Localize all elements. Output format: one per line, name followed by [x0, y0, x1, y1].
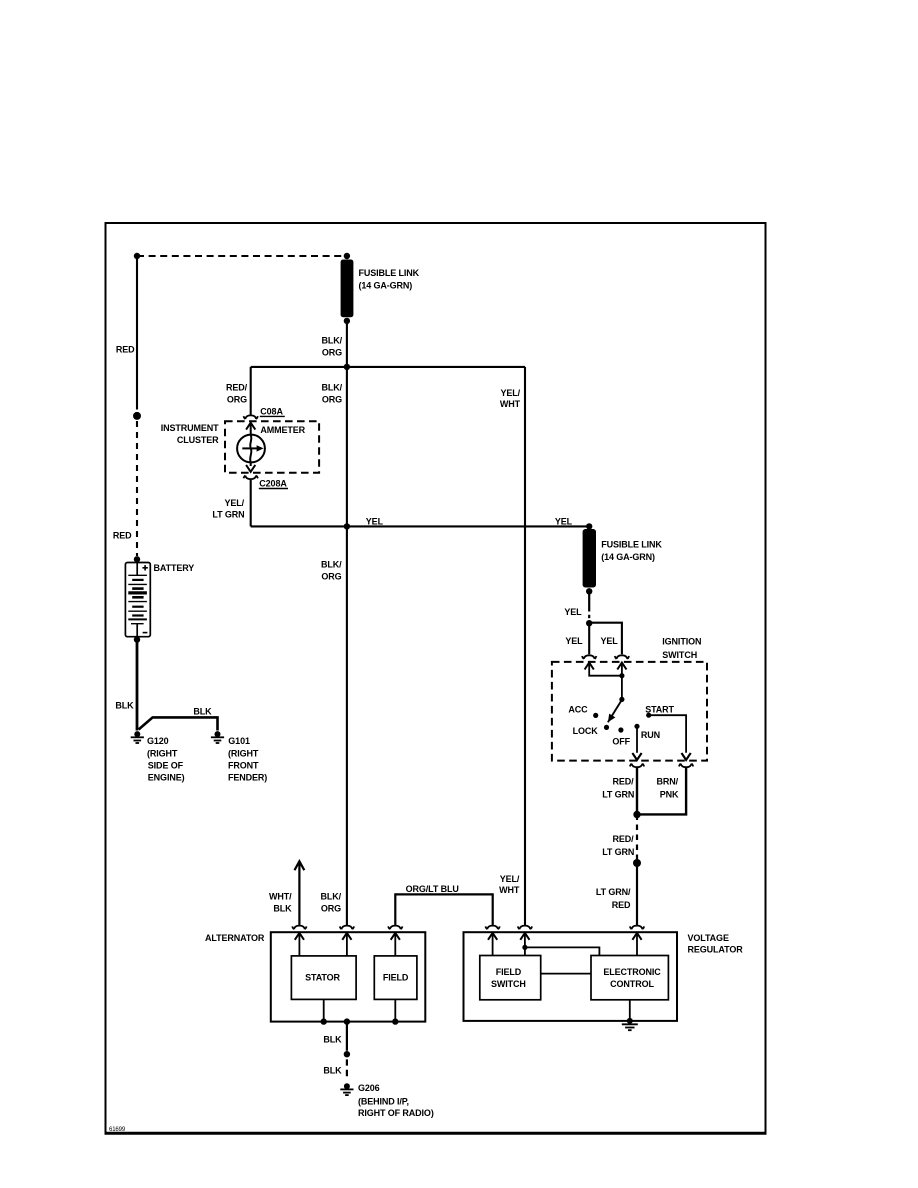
ground regulator internal: [622, 1018, 638, 1030]
ignition switch box: [552, 662, 707, 761]
svg-text:C208A: C208A: [259, 478, 287, 488]
svg-text:BLK: BLK: [273, 903, 292, 913]
connector regulator pin 1: [485, 926, 499, 940]
wire BLK branch to G101: [139, 717, 218, 730]
wire BLK/ORG horizontal distribution: [251, 366, 525, 368]
node YEL/BLK ORG junction: [344, 523, 350, 529]
svg-text:G101: G101: [228, 736, 250, 746]
svg-text:START: START: [645, 704, 674, 714]
node BLK takeoff: [344, 1018, 350, 1024]
ground G206: [340, 1083, 353, 1095]
svg-text:REGULATOR: REGULATOR: [688, 945, 744, 955]
wire dashed RED top horizontal: [137, 255, 347, 257]
wire field ground stem: [394, 999, 396, 1021]
connector alternator pin 1: [292, 926, 306, 940]
svg-text:FUSIBLE LINK: FUSIBLE LINK: [359, 268, 420, 278]
wire RED solid left vertical: [136, 256, 138, 410]
svg-text:ALTERNATOR: ALTERNATOR: [205, 933, 265, 943]
wire BLK/ORG main vertical: [346, 321, 348, 926]
svg-text:BLK: BLK: [193, 706, 212, 716]
wire BRN/PNK: [640, 767, 686, 814]
svg-text:BLK/: BLK/: [321, 560, 342, 570]
svg-text:G120: G120: [147, 736, 169, 746]
stator winding: [291, 956, 356, 1000]
wire RED/LT GRN dashed: [636, 815, 638, 863]
voltage regulator box: [464, 932, 678, 1021]
wire WHT/BLK stub with arrow: [295, 861, 305, 925]
node switch pivot: [619, 697, 624, 702]
svg-text:FUSIBLE LINK: FUSIBLE LINK: [601, 539, 662, 549]
svg-text:SWITCH: SWITCH: [491, 979, 526, 989]
svg-text:BLK: BLK: [323, 1034, 342, 1044]
wire regulator internal feeds: [493, 933, 637, 956]
connector ignition feed left: [582, 655, 596, 669]
svg-text:YEL: YEL: [555, 516, 573, 526]
wire electronic control ground stem: [629, 1000, 631, 1019]
node splice LT GRN/RED: [633, 859, 641, 867]
connector ignition feed right: [615, 655, 629, 669]
svg-text:STATOR: STATOR: [305, 972, 340, 982]
svg-text:RED: RED: [116, 345, 135, 355]
wire BLK battery to ground: [136, 641, 139, 731]
svg-text:BRN/: BRN/: [657, 776, 679, 786]
svg-text:LT GRN: LT GRN: [602, 847, 634, 857]
node RED wire mid: [133, 412, 141, 420]
svg-text:ACC: ACC: [568, 704, 588, 714]
svg-text:WHT: WHT: [500, 399, 521, 409]
wire BLK dashed to G206: [346, 1059, 348, 1076]
node battery positive terminal: [134, 556, 140, 562]
node stator to case: [321, 1018, 327, 1024]
svg-text:VOLTAGE: VOLTAGE: [688, 933, 729, 943]
svg-text:CONTROL: CONTROL: [610, 979, 654, 989]
svg-text:(RIGHT: (RIGHT: [147, 749, 178, 759]
svg-text:RUN: RUN: [641, 730, 660, 740]
node YEL split: [586, 620, 592, 626]
svg-text:RED/: RED/: [612, 776, 634, 786]
svg-text:OFF: OFF: [612, 737, 630, 747]
svg-text:WHT/: WHT/: [269, 891, 292, 901]
field switch block: [480, 956, 541, 1000]
svg-text:FRONT: FRONT: [228, 761, 259, 771]
wire ORG/LT BLU: [395, 894, 492, 925]
svg-text:(14 GA-GRN): (14 GA-GRN): [601, 552, 655, 562]
svg-text:RED/: RED/: [612, 834, 634, 844]
wire RED/ORG drop to ammeter: [250, 367, 252, 416]
connector C208A: [250, 462, 252, 466]
node BLK/ORG junction at horizontal: [344, 364, 350, 370]
battery: [125, 563, 150, 637]
node regulator internal junction: [522, 945, 527, 950]
contact OFF: [618, 727, 623, 732]
svg-text:SIDE OF: SIDE OF: [148, 761, 184, 771]
wire YEL/LT GRN drop: [250, 479, 252, 527]
wire START output: [649, 715, 686, 753]
connector regulator pin 3: [630, 926, 644, 940]
svg-text:YEL: YEL: [565, 636, 583, 646]
svg-text:IGNITION: IGNITION: [662, 637, 701, 647]
switch lever SW1: [608, 700, 622, 722]
wire stator ground stem: [323, 999, 325, 1021]
svg-text:ORG: ORG: [321, 571, 341, 581]
ground G101: [211, 731, 224, 743]
wire ignition internal feed: [589, 663, 622, 700]
svg-text:ELECTRONIC: ELECTRONIC: [603, 967, 661, 977]
node ignition internal junction: [619, 673, 624, 678]
svg-text:FIELD: FIELD: [383, 972, 409, 982]
svg-text:ORG/LT BLU: ORG/LT BLU: [406, 884, 459, 894]
svg-text:G206: G206: [358, 1083, 380, 1093]
svg-text:BLK: BLK: [115, 700, 134, 710]
svg-text:BLK: BLK: [323, 1066, 342, 1076]
ammeter M1: [237, 423, 265, 462]
connector RUN exit: [630, 753, 644, 767]
wire YEL below link: [588, 591, 590, 611]
border frame: [105, 223, 767, 1134]
wire YEL horizontal: [251, 525, 590, 527]
svg-text:BATTERY: BATTERY: [154, 563, 195, 573]
node battery negative terminal: [134, 636, 140, 642]
svg-text:LT GRN/: LT GRN/: [596, 887, 631, 897]
wire RUN output: [636, 726, 638, 753]
svg-text:YEL: YEL: [564, 607, 582, 617]
svg-text:C08A: C08A: [260, 406, 283, 416]
svg-text:AMMETER: AMMETER: [260, 425, 305, 435]
node at top-left corner: [134, 253, 140, 259]
contact LOCK: [604, 725, 609, 730]
svg-text:BLK/: BLK/: [321, 336, 342, 346]
svg-text:LT GRN: LT GRN: [602, 789, 634, 799]
wire RED/LT GRN: [636, 767, 638, 815]
svg-text:(BEHIND I/P,: (BEHIND I/P,: [358, 1096, 409, 1106]
svg-text:RED/: RED/: [226, 382, 248, 392]
wire RED dashed to battery: [136, 421, 138, 556]
contact RUN: [634, 724, 639, 729]
wire YEL/WHT vertical: [524, 367, 526, 926]
wire LT GRN/RED: [636, 863, 638, 926]
alternator box: [271, 932, 426, 1021]
svg-text:LOCK: LOCK: [573, 726, 599, 736]
svg-text:(14 GA-GRN): (14 GA-GRN): [359, 280, 413, 290]
connector C08A: [244, 415, 258, 429]
svg-text:RIGHT OF RADIO): RIGHT OF RADIO): [358, 1108, 434, 1118]
connector alternator pin 2: [340, 926, 354, 940]
node splice RED/LT GRN upper: [633, 811, 640, 818]
svg-text:YEL: YEL: [601, 636, 619, 646]
svg-text:LT GRN: LT GRN: [212, 510, 244, 520]
ground G120: [131, 731, 144, 743]
svg-text:61699: 61699: [109, 1127, 126, 1133]
svg-text:YEL/: YEL/: [500, 874, 520, 884]
node field to case: [392, 1018, 398, 1024]
svg-text:YEL: YEL: [366, 516, 384, 526]
wire field switch to electronic control: [541, 973, 591, 975]
wire BLK to splice: [346, 1022, 348, 1051]
svg-text:YEL/: YEL/: [500, 388, 520, 398]
svg-text:RED: RED: [113, 531, 132, 541]
svg-text:ENGINE): ENGINE): [148, 773, 185, 783]
wire alternator internal stems: [299, 933, 395, 956]
svg-text:YEL/: YEL/: [224, 498, 244, 508]
svg-text:(RIGHT: (RIGHT: [228, 749, 259, 759]
connector alternator pin 3: [388, 926, 402, 940]
node splice BLK: [344, 1051, 350, 1057]
wire YEL branch to second switch feed: [589, 623, 622, 655]
connector START exit: [679, 753, 693, 767]
contact START: [646, 713, 651, 718]
instrument cluster box: [225, 421, 319, 472]
svg-text:CLUSTER: CLUSTER: [177, 435, 219, 445]
svg-text:BLK/: BLK/: [321, 382, 342, 392]
svg-text:FENDER): FENDER): [228, 773, 267, 783]
field winding: [374, 956, 417, 1000]
svg-text:BLK/: BLK/: [320, 891, 341, 901]
connector regulator pin 2: [518, 926, 532, 940]
svg-text:ORG: ORG: [321, 903, 341, 913]
svg-text:SWITCH: SWITCH: [662, 650, 697, 660]
svg-text:INSTRUMENT: INSTRUMENT: [161, 423, 219, 433]
svg-text:RED: RED: [612, 900, 631, 910]
svg-text:ORG: ORG: [227, 395, 247, 405]
fusible link F1: [344, 253, 350, 259]
svg-text:WHT: WHT: [499, 885, 520, 895]
svg-text:PNK: PNK: [660, 789, 679, 799]
svg-text:ORG: ORG: [322, 395, 342, 405]
contact ACC: [593, 713, 598, 718]
svg-text:ORG: ORG: [322, 347, 342, 357]
fusible link F2: [586, 523, 592, 529]
electronic control block: [591, 956, 668, 1000]
svg-text:FIELD: FIELD: [496, 967, 522, 977]
